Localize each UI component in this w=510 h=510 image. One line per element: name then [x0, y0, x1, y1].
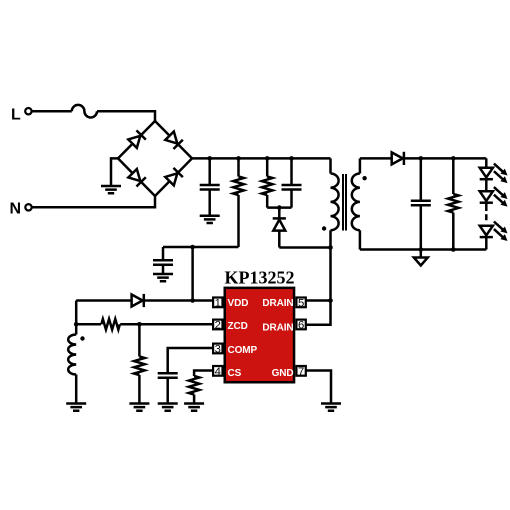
capacitor C4 (output)	[420, 158, 423, 249]
svg-text:L: L	[11, 106, 21, 123]
chassis ground (output)	[414, 258, 428, 266]
transformer T1 secondary lead bottom	[359, 230, 362, 249]
resistor R6 (output)	[452, 158, 455, 249]
node ZCD-aux	[74, 322, 79, 327]
ground G2 (C1)	[200, 216, 220, 223]
ground G7 (R5)	[184, 404, 204, 411]
wire VDD branch vertical	[191, 247, 194, 301]
pin 3 square	[213, 344, 222, 354]
pin 2 square	[213, 320, 222, 330]
node ZCD	[137, 322, 142, 327]
node bottom-C4	[419, 247, 424, 252]
resistor R4 (ZCD pulldown)	[138, 324, 141, 403]
capacitor C2 (VDD)	[162, 247, 165, 274]
terminal N circle	[25, 204, 31, 210]
node VDD-feed	[190, 245, 195, 250]
svg-text:GND: GND	[272, 368, 294, 379]
wire LED1 to LED2	[485, 179, 488, 191]
pin 4 square	[213, 366, 222, 376]
wire ZCD line	[76, 323, 213, 326]
node drain-top	[328, 245, 333, 250]
wire drain to pin6	[306, 301, 331, 325]
transformer T1 primary lead bottom	[329, 230, 332, 247]
svg-text:VDD: VDD	[228, 298, 249, 309]
resistor R5 (CS sense)	[189, 376, 200, 395]
LED LED1	[480, 164, 508, 184]
svg-text:1: 1	[215, 297, 221, 309]
wire aux vertical	[75, 301, 78, 335]
pin 7 square	[296, 366, 305, 376]
wire LED2 down	[485, 203, 488, 205]
ground G3 (C2)	[153, 274, 173, 281]
capacitor C3 (clamp)	[290, 158, 293, 207]
capacitor C1	[208, 158, 211, 215]
node rail-C3	[289, 156, 294, 161]
node rail-C1	[207, 156, 212, 161]
transformer T1 primary winding	[331, 174, 339, 231]
IC U1 body	[225, 288, 294, 382]
resistor R3 (ZCD series)	[101, 319, 120, 330]
transformer T1 secondary winding	[352, 174, 360, 231]
transformer T1 primary lead top	[329, 158, 332, 173]
wire drain vertical	[329, 248, 332, 301]
svg-text:3: 3	[215, 343, 221, 355]
fuse F1	[72, 105, 97, 118]
wire pin5	[306, 299, 331, 302]
bridge rectifier diamond	[118, 121, 192, 196]
svg-text:KP13252: KP13252	[225, 267, 295, 287]
svg-text:COMP: COMP	[228, 345, 258, 356]
svg-text:DRAIN: DRAIN	[262, 298, 293, 309]
bridge diode D1 (top-left)	[128, 130, 146, 148]
pin 1 square	[213, 298, 222, 308]
diode D6 (output)	[392, 152, 404, 165]
svg-text:4: 4	[215, 366, 221, 378]
bridge diode D3 (bottom-left)	[128, 169, 146, 187]
diode D4b (VDD rectifier)	[132, 294, 144, 307]
wire N to bridge bottom	[32, 196, 155, 207]
ground G4 (aux)	[66, 404, 86, 411]
wire LED3 to bottom rail	[485, 237, 488, 249]
wire L to fuse	[32, 110, 72, 113]
svg-text:DRAIN: DRAIN	[262, 323, 293, 334]
wire LED string top	[485, 158, 488, 167]
aux phase dot	[80, 336, 84, 340]
ground G6 (C5)	[158, 404, 178, 411]
node rail-R1	[236, 156, 241, 161]
wire fuse to bridge top	[97, 111, 155, 121]
node out-C4	[419, 156, 424, 161]
transformer T1 secondary lead top	[359, 158, 362, 173]
terminal L circle	[25, 108, 31, 114]
svg-text:2: 2	[215, 319, 221, 331]
transformer T1 secondary phase dot	[362, 176, 366, 180]
svg-text:ZCD: ZCD	[228, 321, 248, 332]
ground G5 (R4)	[129, 404, 149, 411]
wire aux to ground	[75, 375, 78, 404]
pin 6 square	[296, 320, 305, 330]
node out-R6	[451, 156, 456, 161]
node bottom-R6	[451, 247, 456, 252]
resistor R1 (startup)	[237, 158, 240, 247]
resistor R2 (clamp)	[266, 158, 269, 207]
node VDD	[190, 298, 195, 303]
wire secondary top to diode	[360, 157, 392, 160]
wire CS	[194, 371, 213, 377]
wire GND pin7	[306, 371, 331, 404]
ground G1 (bridge)	[101, 186, 121, 193]
wire COMP	[168, 348, 213, 373]
wire output bottom rail	[360, 248, 486, 251]
transformer T1 core	[343, 174, 346, 231]
bridge diode D4 (bottom-right)	[165, 168, 183, 186]
inductor L1 (aux winding)	[68, 335, 76, 375]
node rail-R2	[265, 156, 270, 161]
pin 5 square	[296, 298, 305, 308]
wire output rail	[404, 157, 486, 160]
capacitor C5 (COMP)	[158, 373, 178, 378]
transformer T1 primary phase dot	[322, 226, 326, 230]
svg-text:5: 5	[298, 297, 304, 309]
chassis ground stem	[420, 250, 423, 258]
wire clamp bottom	[267, 206, 291, 209]
svg-text:7: 7	[298, 366, 304, 378]
wire R1 bottom to C2	[163, 246, 239, 249]
diode D5 (clamp, pointing up)	[278, 208, 281, 219]
wire bridge minus to ground	[111, 158, 118, 186]
node clamp	[277, 205, 282, 210]
svg-text:CS: CS	[228, 368, 242, 379]
wire aux top (VDD line left)	[76, 299, 213, 302]
node drain-pin5	[328, 298, 333, 303]
LED LED3	[480, 222, 508, 242]
ground G8 (IC)	[321, 404, 341, 411]
LED LED2	[480, 187, 508, 207]
svg-text:N: N	[10, 201, 22, 218]
wire dashed (more LEDs)	[485, 205, 488, 220]
wire main rail	[192, 157, 331, 160]
svg-text:6: 6	[298, 319, 304, 331]
bridge diode D2 (top-right)	[165, 131, 183, 149]
wire clamp to drain node	[279, 246, 330, 249]
